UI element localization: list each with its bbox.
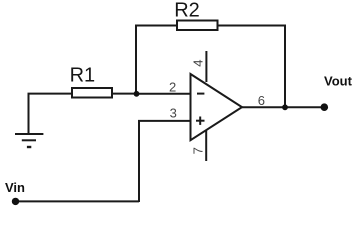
minus input symbol [197,93,204,95]
op-amp U1 [191,74,243,140]
node junction at feedback/output [282,104,288,110]
wire output [242,106,324,108]
wire right vertical down [284,25,286,108]
svg-text:R1: R1 [70,65,96,87]
wire Vin horizontal [16,200,140,202]
plus input symbol [196,117,205,125]
svg-text:4: 4 [191,59,206,66]
node Vout terminal [321,103,329,111]
wire feedback vertical [135,26,137,95]
svg-text:3: 3 [170,105,177,120]
resistor R2 [177,21,218,31]
node Vin terminal [12,198,19,205]
svg-text:7: 7 [191,147,206,154]
wire R2 to right corner [218,25,286,27]
svg-text:Vin: Vin [5,180,25,195]
wire node to pin 2 [137,93,191,95]
svg-text:2: 2 [169,79,176,94]
ground [15,134,43,147]
wire R1 to node [112,93,137,95]
pin 4 line [205,51,207,82]
wire Vin vertical up [138,121,140,202]
svg-text:Vout: Vout [324,73,353,88]
svg-text:R2: R2 [174,0,200,21]
wire ground lead [28,94,30,133]
wire to pin 3 [138,120,190,122]
resistor R1 [72,88,112,98]
wire ground to R1 [28,93,73,95]
pin 7 line [205,130,207,161]
svg-text:6: 6 [258,93,265,108]
wire feedback top to R2 [135,25,178,27]
node junction at R1/feedback [134,91,140,97]
